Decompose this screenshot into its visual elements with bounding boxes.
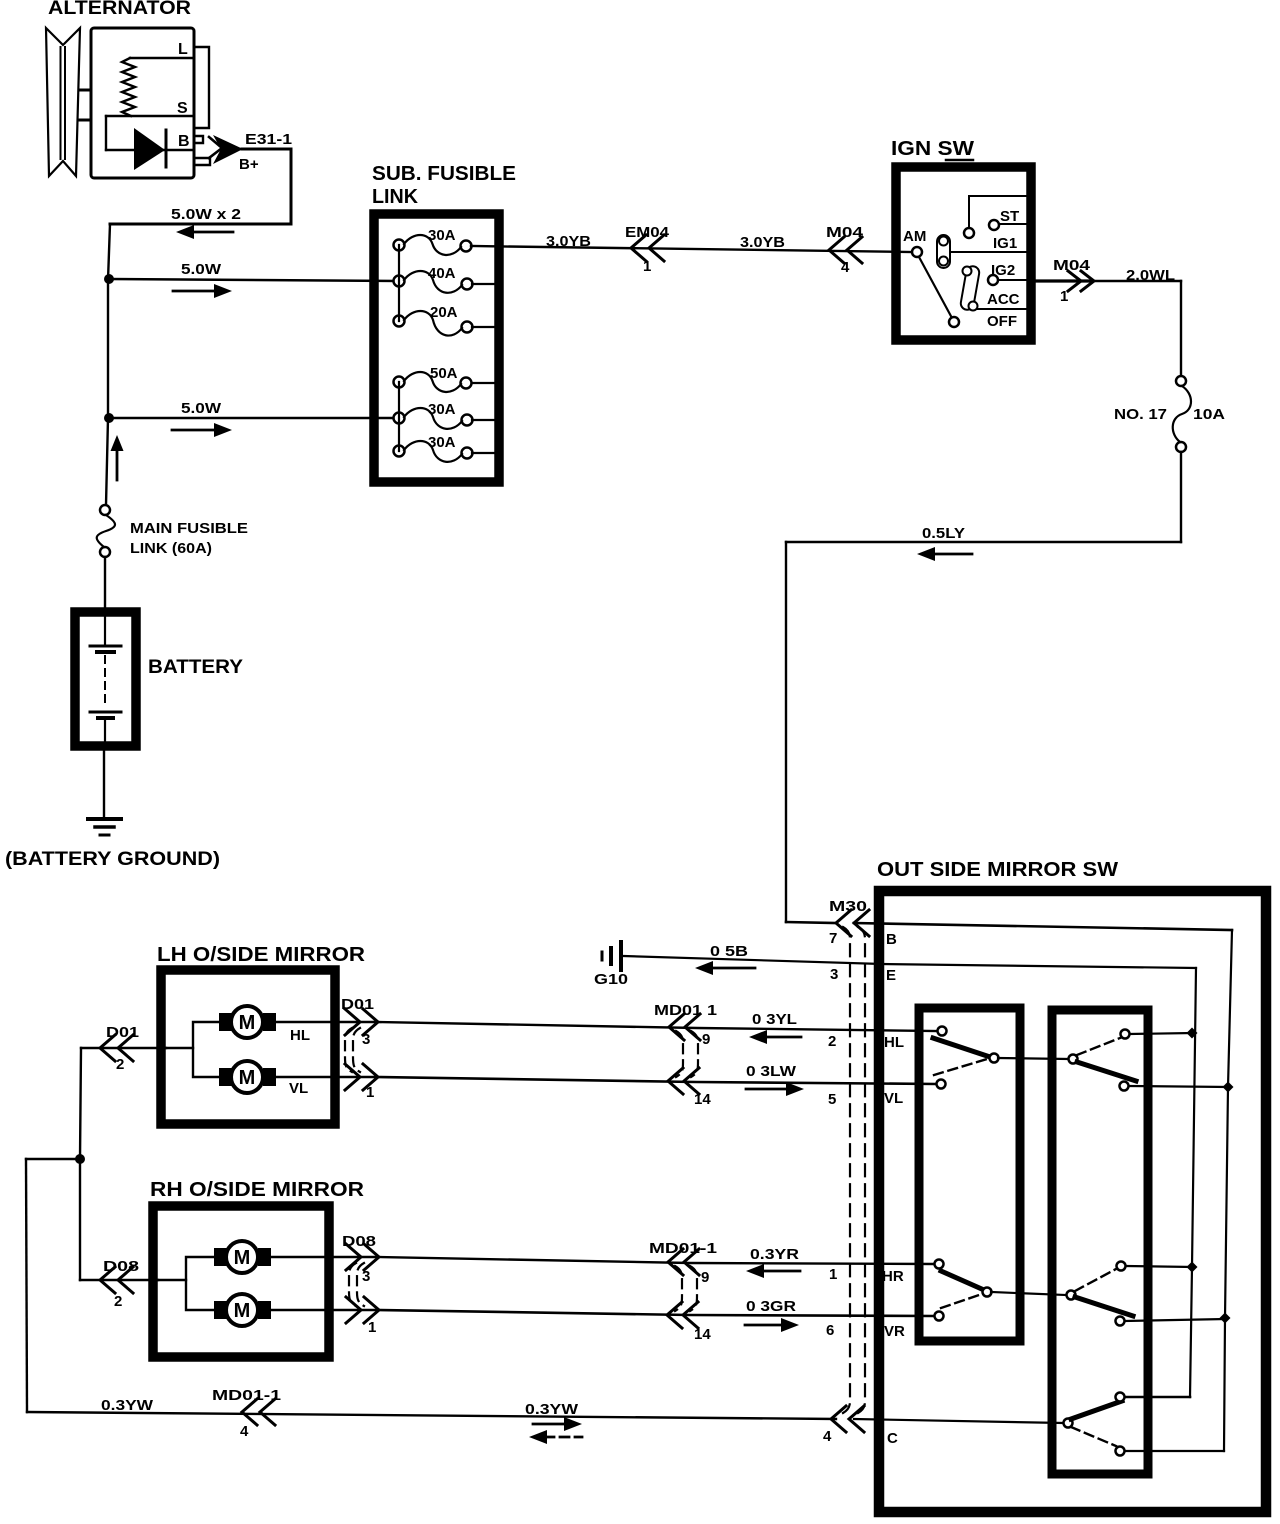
svg-text:10A: 10A bbox=[1193, 406, 1225, 423]
lever dashed C down bbox=[1071, 1427, 1116, 1446]
svg-text:BATTERY: BATTERY bbox=[148, 657, 243, 678]
svg-text:VL: VL bbox=[289, 1080, 308, 1097]
svg-text:MD01 1: MD01 1 bbox=[654, 1002, 717, 1019]
battery internal wire top bbox=[104, 612, 106, 644]
svg-text:OFF: OFF bbox=[987, 313, 1017, 330]
ground G10 bbox=[619, 942, 623, 970]
LH motor M (VL) bbox=[231, 1061, 263, 1093]
wire HR (0.3YR) bbox=[377, 1257, 934, 1264]
svg-text:M: M bbox=[234, 1247, 251, 1269]
svg-text:9: 9 bbox=[701, 1269, 709, 1286]
svg-text:1: 1 bbox=[366, 1084, 374, 1101]
common node & branches bbox=[75, 1154, 85, 1164]
svg-text:6: 6 bbox=[826, 1322, 834, 1339]
left bus vertical bbox=[108, 224, 110, 280]
svg-text:VR: VR bbox=[884, 1323, 905, 1340]
lever dashed up (box2) bbox=[1077, 1038, 1120, 1055]
pole circle 3 bbox=[983, 1288, 992, 1297]
diode bbox=[134, 128, 165, 170]
wire D08 left bbox=[80, 1279, 158, 1281]
C pole circle bbox=[1064, 1419, 1073, 1428]
pulley shaft bars bbox=[79, 89, 90, 92]
fuse output stubs bbox=[472, 283, 494, 285]
svg-text:0.3YR: 0.3YR bbox=[750, 1246, 799, 1263]
fuse bus link bottom group bbox=[398, 382, 400, 451]
battery internal wire bottom bbox=[104, 720, 106, 746]
svg-text:3: 3 bbox=[830, 966, 838, 983]
lever dashed VR bbox=[941, 1294, 982, 1308]
contact to B bus bbox=[1120, 1082, 1129, 1091]
RH motor M (VR) bbox=[226, 1294, 258, 1326]
connector E31-1 bbox=[209, 137, 222, 158]
svg-text:G10: G10 bbox=[594, 971, 628, 988]
LH motor M (HL) bbox=[231, 1006, 263, 1038]
svg-text:0.5LY: 0.5LY bbox=[922, 525, 965, 542]
svg-text:MAIN FUSIBLE: MAIN FUSIBLE bbox=[130, 520, 248, 537]
svg-text:ACC: ACC bbox=[987, 291, 1020, 308]
wire VR (0.3GR) bbox=[377, 1310, 934, 1316]
node: 5.0W junction 2 bbox=[104, 413, 114, 423]
svg-text:9: 9 bbox=[702, 1031, 710, 1048]
svg-text:B+: B+ bbox=[239, 156, 259, 173]
svg-text:HR: HR bbox=[882, 1268, 904, 1285]
connector D08 pin 2 bbox=[100, 1267, 115, 1293]
battery ground symbol bbox=[88, 817, 121, 821]
svg-text:L: L bbox=[178, 41, 188, 58]
svg-text:20A: 20A bbox=[430, 304, 458, 321]
svg-text:EM04: EM04 bbox=[625, 224, 670, 241]
svg-text:2: 2 bbox=[828, 1033, 836, 1050]
lever dashed up (box2) bbox=[1075, 1269, 1116, 1291]
svg-text:HL: HL bbox=[290, 1027, 310, 1044]
svg-text:50A: 50A bbox=[430, 365, 458, 382]
coil top wire to L bbox=[130, 57, 193, 59]
RH motor output wires bbox=[271, 1256, 377, 1258]
svg-text:0 3GR: 0 3GR bbox=[746, 1298, 796, 1315]
svg-text:14: 14 bbox=[694, 1091, 711, 1108]
connector D08 right pins 3,1 bbox=[346, 1244, 361, 1270]
svg-text:4: 4 bbox=[823, 1428, 832, 1445]
svg-text:0 3YL: 0 3YL bbox=[752, 1011, 797, 1028]
wire battery to ground bbox=[103, 746, 105, 818]
lever solid HL bbox=[933, 1038, 990, 1057]
svg-text:D08: D08 bbox=[103, 1258, 139, 1275]
connector M30 pin 4 bbox=[831, 1406, 846, 1432]
internal vertical S-to-diode bbox=[105, 116, 107, 150]
wire 0.5LY vertical bbox=[785, 542, 787, 922]
L external bracket wire bbox=[196, 47, 209, 128]
ignition switch box bbox=[896, 167, 1031, 340]
wire corner down to 5.0Wx2 bbox=[290, 149, 293, 224]
svg-text:HL: HL bbox=[884, 1034, 904, 1051]
svg-text:M: M bbox=[234, 1300, 251, 1322]
connector D01 right pins 3,1 bbox=[345, 1009, 360, 1035]
wire E31-1 to corner bbox=[242, 148, 291, 151]
pole circle 4 bbox=[1067, 1291, 1076, 1300]
svg-text:IG1: IG1 bbox=[993, 235, 1017, 252]
wire HL (0.3YL) bbox=[375, 1022, 937, 1031]
main fusible link 60A bbox=[100, 505, 110, 515]
svg-text:M04: M04 bbox=[1053, 257, 1091, 274]
wire down to common node bbox=[81, 1047, 101, 1049]
svg-text:5.0W: 5.0W bbox=[181, 261, 222, 278]
svg-text:S: S bbox=[177, 100, 188, 117]
svg-text:4: 4 bbox=[841, 259, 850, 276]
fuse bus link top group bbox=[398, 245, 400, 321]
svg-text:0.3YW: 0.3YW bbox=[101, 1397, 154, 1414]
flow arrow left bbox=[192, 231, 233, 234]
B bus vertical bbox=[1224, 930, 1232, 1451]
svg-text:D01: D01 bbox=[341, 996, 374, 1013]
svg-text:LH O/SIDE MIRROR: LH O/SIDE MIRROR bbox=[157, 944, 366, 966]
wire 2.0WL bbox=[1094, 280, 1181, 282]
svg-text:AM: AM bbox=[903, 228, 926, 245]
lever solid down (box2) bbox=[1075, 1297, 1133, 1316]
svg-text:RH O/SIDE MIRROR: RH O/SIDE MIRROR bbox=[150, 1179, 365, 1201]
svg-text:4: 4 bbox=[240, 1423, 249, 1440]
wire E row bbox=[881, 964, 1196, 968]
outside mirror switch box bbox=[879, 891, 1266, 1512]
LH mirror box bbox=[161, 970, 335, 1124]
svg-text:1: 1 bbox=[1060, 288, 1068, 305]
svg-text:B: B bbox=[886, 931, 897, 948]
svg-text:3.0YB: 3.0YB bbox=[546, 233, 591, 250]
VR contact bbox=[935, 1312, 944, 1321]
wire 5.0W (to 40A) bbox=[109, 279, 399, 281]
svg-text:B: B bbox=[178, 133, 190, 150]
connector M04 pin 4 bbox=[829, 237, 844, 263]
svg-text:(BATTERY GROUND): (BATTERY GROUND) bbox=[5, 849, 220, 870]
lever solid HR bbox=[941, 1271, 984, 1290]
wire 3.0YB bbox=[471, 246, 912, 252]
M30 dashed bracket bbox=[843, 927, 850, 1413]
B+ terminal tab bbox=[195, 158, 210, 165]
wire 0.5LY horizontal bbox=[786, 541, 1181, 543]
E bus vertical bbox=[1190, 968, 1196, 1397]
pole circle 2 bbox=[1069, 1055, 1078, 1064]
svg-text:M: M bbox=[239, 1067, 256, 1089]
contact capsule 2 (tilted) bbox=[960, 265, 980, 311]
lever solid C up bbox=[1071, 1401, 1122, 1419]
HR contact bbox=[935, 1260, 944, 1269]
wire 5.0W x 2 bbox=[110, 223, 291, 226]
wire C row (0.3YW) bbox=[27, 1412, 836, 1419]
svg-text:IGN SW: IGN SW bbox=[891, 138, 974, 160]
svg-text:3: 3 bbox=[362, 1031, 370, 1048]
sub fusible link box bbox=[374, 214, 499, 482]
svg-text:5: 5 bbox=[828, 1091, 836, 1108]
B terminal tab bbox=[195, 136, 203, 143]
svg-text:LINK: LINK bbox=[372, 186, 419, 208]
svg-text:0 5B: 0 5B bbox=[710, 943, 748, 960]
svg-text:M: M bbox=[239, 1012, 256, 1034]
svg-text:LINK (60A): LINK (60A) bbox=[130, 540, 212, 557]
svg-text:5.0W x 2: 5.0W x 2 bbox=[171, 206, 241, 223]
alternator rotor coil bbox=[122, 58, 135, 116]
contact capsule 1 bbox=[937, 235, 950, 268]
HL contact bbox=[938, 1027, 947, 1036]
contact to B bus bbox=[1116, 1317, 1125, 1326]
svg-text:M04: M04 bbox=[826, 224, 864, 241]
contact to E bus bbox=[1117, 1262, 1126, 1271]
wire M04 out (IG2) bbox=[1031, 279, 1091, 282]
wire to battery bbox=[104, 557, 106, 608]
S terminal wire bbox=[106, 115, 193, 117]
diode D line bbox=[106, 149, 193, 151]
flow arrow right bbox=[173, 290, 216, 293]
pole circle 1 bbox=[990, 1054, 999, 1063]
alternator U1 body bbox=[91, 28, 194, 178]
pole link wire bbox=[991, 1292, 1066, 1295]
switch lever AM-OFF bbox=[919, 257, 952, 318]
svg-text:SUB. FUSIBLE: SUB. FUSIBLE bbox=[372, 163, 516, 185]
fuse NO.17 10A bbox=[1176, 376, 1186, 386]
lever dashed VL bbox=[934, 1059, 987, 1075]
svg-text:0 3LW: 0 3LW bbox=[746, 1063, 797, 1080]
LH motor feed wires bbox=[193, 1022, 219, 1077]
battery cell top bbox=[90, 645, 121, 648]
C upper contact to E bus bbox=[1116, 1393, 1125, 1402]
connector EM04 pin 1 bbox=[631, 235, 646, 261]
contact to E bus bbox=[1121, 1030, 1130, 1039]
switch inner box 1 bbox=[919, 1008, 1020, 1341]
svg-text:5.0W: 5.0W bbox=[181, 400, 222, 417]
svg-text:VL: VL bbox=[884, 1090, 903, 1107]
alternator pulley bbox=[46, 28, 80, 176]
flow arrow up (battery feed) bbox=[116, 449, 119, 480]
RH motor feed wires bbox=[186, 1257, 214, 1310]
svg-text:3: 3 bbox=[362, 1268, 370, 1285]
svg-text:2: 2 bbox=[116, 1056, 124, 1073]
battery cell bottom bbox=[90, 711, 121, 714]
VL contact bbox=[937, 1080, 946, 1089]
connector M04 pin 1 bbox=[1068, 271, 1081, 291]
svg-text:E31-1: E31-1 bbox=[245, 131, 292, 148]
connector D01 pin 2 bbox=[100, 1035, 115, 1061]
wire B row bbox=[786, 922, 836, 923]
ST upper contact bbox=[964, 228, 974, 238]
RH motor M (HR) bbox=[226, 1241, 258, 1273]
wire VL (0.3LW) bbox=[375, 1077, 936, 1084]
battery box bbox=[75, 612, 136, 746]
LH motor output wires bbox=[276, 1021, 375, 1023]
svg-text:3.0YB: 3.0YB bbox=[740, 234, 785, 251]
svg-text:OUT SIDE MIRROR SW: OUT SIDE MIRROR SW bbox=[877, 859, 1118, 881]
svg-text:7: 7 bbox=[829, 930, 837, 947]
wire D01 left bbox=[101, 1047, 166, 1049]
svg-text:ALTERNATOR: ALTERNATOR bbox=[48, 0, 191, 19]
svg-text:D01: D01 bbox=[106, 1024, 139, 1041]
svg-text:1: 1 bbox=[368, 1319, 376, 1336]
wire 5.0W (to 30A) bbox=[109, 417, 399, 419]
lever solid down (box2) bbox=[1077, 1062, 1136, 1081]
svg-text:1: 1 bbox=[829, 1266, 837, 1283]
svg-text:14: 14 bbox=[694, 1326, 711, 1343]
switch inner box 2 bbox=[1052, 1010, 1148, 1474]
C lower contact to B bus bbox=[1116, 1447, 1125, 1456]
svg-text:0.3YW: 0.3YW bbox=[525, 1401, 579, 1418]
node: 5.0W junction 1 bbox=[104, 274, 114, 284]
wire fuse to 0.5LY corner bbox=[1180, 452, 1182, 542]
wire 0.5B from G10 bbox=[624, 956, 881, 964]
svg-text:1: 1 bbox=[643, 258, 651, 275]
pole link wire bbox=[998, 1058, 1068, 1059]
svg-text:E: E bbox=[886, 967, 896, 984]
svg-text:C: C bbox=[887, 1430, 898, 1447]
svg-text:D08: D08 bbox=[342, 1233, 376, 1250]
battery dashed middle bbox=[104, 656, 106, 708]
svg-text:ST: ST bbox=[1000, 208, 1019, 225]
svg-text:NO. 17: NO. 17 bbox=[1114, 406, 1167, 423]
svg-text:2: 2 bbox=[114, 1293, 122, 1310]
RH mirror box bbox=[153, 1206, 329, 1357]
